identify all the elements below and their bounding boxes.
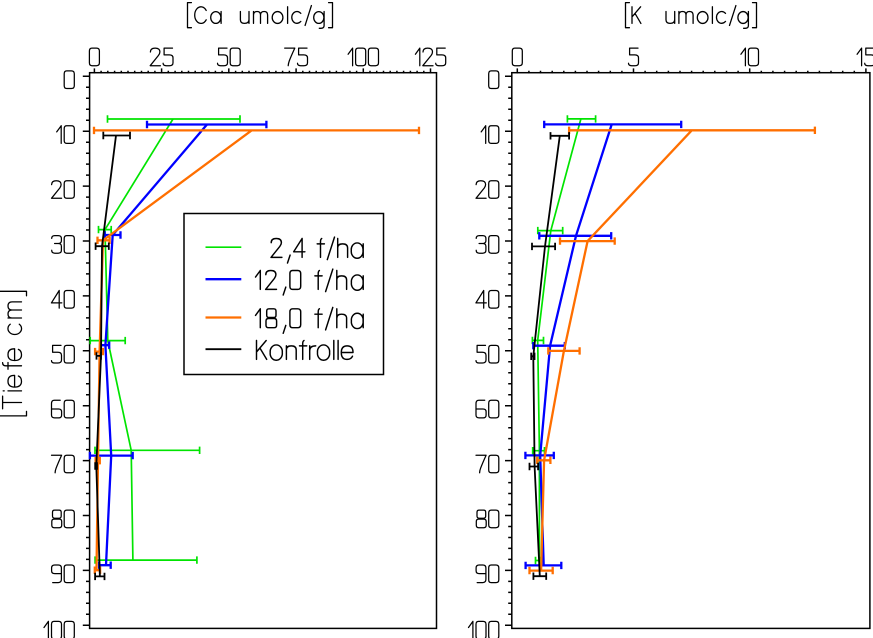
shared y axis title [Tiefe cm], rotated 90deg CCW	[0, 291, 27, 416]
error bars "Kontrolle" (black) - right panel	[530, 132, 570, 580]
legend sample line: 12,0 t/ha (blue)	[206, 278, 242, 280]
left y tick label 100	[44, 621, 74, 638]
legend box	[184, 214, 384, 375]
right y tick label 0	[489, 71, 499, 89]
legend sample line: 2,4 t/ha (green)	[206, 246, 242, 248]
right left axis tick marks	[505, 76, 512, 625]
right plot frame	[512, 73, 870, 629]
data series "12,0 t/ha" (blue) - right panel: line	[540, 124, 612, 565]
left top axis tick marks	[94, 68, 430, 73]
right y tick label 20	[476, 181, 499, 199]
right y tick label 40	[476, 291, 499, 309]
left y tick label 70	[52, 455, 75, 473]
left x tick label 100	[348, 48, 378, 66]
data series "12,0 t/ha" (blue) - left panel: line	[105, 125, 207, 566]
left y tick label 10	[57, 126, 75, 144]
left y tick label 0	[64, 71, 74, 89]
legend sample line: Kontrolle (black)	[206, 348, 242, 350]
left x tick label 0	[89, 48, 99, 66]
right y tick label 100	[469, 621, 499, 638]
right x tick label 0	[512, 48, 522, 66]
left y tick label 90	[52, 565, 75, 583]
left y tick label 50	[52, 345, 75, 363]
error bars "2,4 t/ha" (green) - right panel	[532, 115, 595, 564]
data series "18,0 t/ha" (orange) - left panel: line	[97, 130, 252, 570]
left panel title [Ca umolc/g]	[188, 3, 333, 29]
error bars "2,4 t/ha" (green) - left panel	[90, 115, 240, 564]
data series "2,4 t/ha" (green) - left panel: line	[105, 119, 173, 560]
right panel title [K umolc/g]	[626, 3, 757, 29]
left y tick label 80	[52, 510, 75, 528]
left left axis tick marks	[83, 76, 90, 625]
right x tick label 5	[629, 48, 639, 66]
data series "Kontrolle" (black) - left panel: line	[96, 136, 116, 577]
right x tick label 15	[857, 48, 873, 66]
left y tick label 40	[51, 291, 74, 309]
right top axis tick marks	[517, 68, 866, 73]
right y tick label 70	[476, 455, 499, 473]
legend sample line: 18,0 t/ha (orange)	[206, 316, 242, 318]
left x tick label 25	[150, 48, 173, 66]
right y tick label 50	[476, 345, 499, 363]
error bars "12,0 t/ha" (blue) - left panel	[90, 121, 267, 569]
right y tick label 80	[476, 510, 499, 528]
error bars "18,0 t/ha" (orange) - left panel	[94, 127, 419, 574]
data series "18,0 t/ha" (orange) - right panel: line	[541, 130, 692, 570]
left y tick label 30	[52, 236, 75, 254]
error bars "12,0 t/ha" (blue) - right panel	[525, 121, 681, 569]
left plot frame	[90, 73, 437, 629]
legend label: 2,4 t/ha	[271, 237, 363, 263]
left x tick label 125	[415, 48, 445, 66]
error bars "Kontrolle" (black) - left panel	[95, 132, 130, 580]
legend label: Kontrolle	[257, 341, 354, 361]
error bars "18,0 t/ha" (orange) - right panel	[530, 127, 815, 575]
right y tick label 60	[476, 400, 499, 418]
left x tick label 50	[218, 48, 241, 66]
data series "2,4 t/ha" (green) - right panel: line	[538, 119, 581, 561]
right x tick label 10	[741, 48, 759, 66]
legend label: 18,0 t/ha	[256, 307, 364, 333]
legend label: 12,0 t/ha	[256, 269, 364, 295]
right y tick label 10	[481, 126, 499, 144]
right y tick label 90	[476, 565, 499, 583]
left y tick label 20	[52, 181, 75, 199]
right y tick label 30	[476, 236, 499, 254]
data series "Kontrolle" (black) - right panel: line	[533, 136, 560, 576]
left x tick label 75	[285, 48, 308, 66]
left y tick label 60	[52, 400, 75, 418]
